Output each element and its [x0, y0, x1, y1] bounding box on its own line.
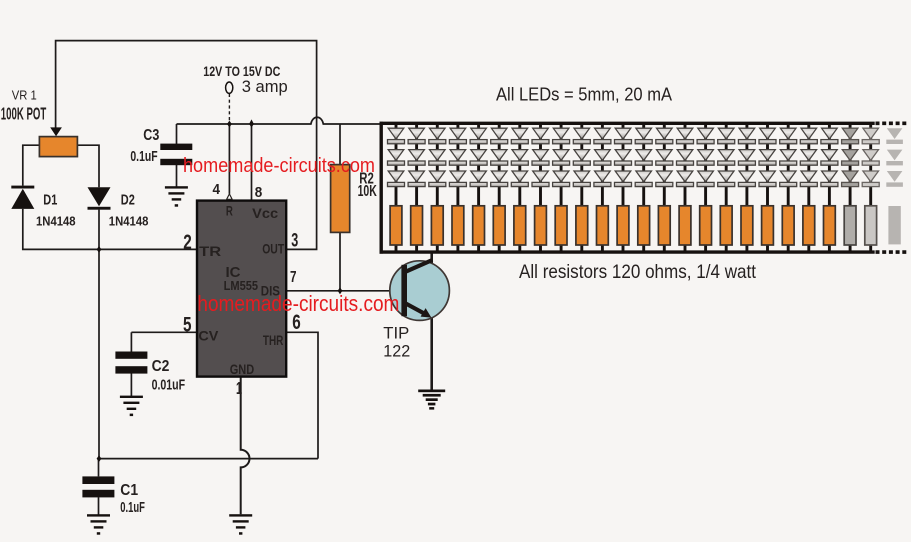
- wire LED column 16: [704, 123, 707, 252]
- wire OUT pin3 to pot wiper (top loop): [56, 41, 317, 250]
- LED column 13 row 1: [635, 128, 652, 144]
- LED column 12 row 1: [615, 128, 632, 144]
- LED column 11 row 3: [594, 171, 611, 187]
- LED column 20 row 1: [780, 128, 797, 144]
- LED column 4 row 2: [449, 150, 466, 166]
- LED column 1 row 1: [388, 128, 405, 144]
- wire LED column 24: [869, 123, 872, 252]
- LED column 4 row 3: [449, 171, 466, 187]
- wire LED column 1: [395, 123, 398, 252]
- svg-text:TR: TR: [199, 243, 221, 259]
- svg-text:2: 2: [183, 231, 192, 254]
- transistor Q1 emitter stroke: [405, 303, 426, 314]
- resistor column 21 (120 ohm): [803, 206, 815, 245]
- wire C3 bottom stem to ground: [176, 165, 178, 189]
- wire C2 bottom stem to ground: [130, 374, 132, 397]
- LED column 10 row 3: [573, 171, 590, 187]
- diode D1 body: [11, 189, 34, 209]
- svg-text:OUT: OUT: [262, 241, 285, 256]
- LED column 21 row 1: [800, 128, 817, 144]
- wire D1 cathode down / TR pin2: [23, 209, 197, 250]
- wire LED column 8: [539, 123, 542, 252]
- wire LED column 15: [684, 123, 687, 252]
- LED column 22 row 1: [821, 128, 838, 144]
- LED column 6 row 1: [491, 128, 508, 144]
- junction DIS/R2 node: [338, 287, 343, 294]
- wire LED column 17: [725, 123, 728, 252]
- LED column 15 row 2: [677, 150, 694, 166]
- LED column 13 row 3: [635, 171, 652, 187]
- LED column 23 row 2: [842, 150, 859, 166]
- svg-text:VR 1: VR 1: [12, 88, 37, 102]
- LED column 14 row 2: [656, 150, 673, 166]
- diode D2 body: [88, 187, 111, 206]
- wire LED column 2: [415, 123, 418, 252]
- LED column 3 row 1: [429, 128, 446, 144]
- wire C2 top stem: [130, 332, 132, 351]
- wire bottom rail: [99, 458, 318, 460]
- resistor column 12 (120 ohm): [617, 206, 629, 245]
- resistor column 6 (120 ohm): [493, 206, 505, 245]
- svg-text:R: R: [226, 202, 233, 218]
- LED column 8 row 2: [532, 150, 549, 166]
- ground below IC pin1: [229, 514, 252, 535]
- LED bank frame bottom border: [380, 250, 875, 253]
- resistor column 18 (120 ohm): [741, 206, 753, 245]
- wire R2 top lead: [339, 124, 341, 165]
- LED column 14 row 3: [656, 171, 673, 187]
- wire THR pin6 down: [286, 332, 318, 458]
- transistor Q1 base bar: [401, 265, 407, 316]
- LED column 5 row 1: [470, 128, 487, 144]
- svg-text:homemade-circuits.com: homemade-circuits.com: [183, 154, 375, 177]
- junction supply/pin8 node: [249, 119, 254, 127]
- wire LED column 20: [787, 123, 790, 252]
- diode D2 cathode bar: [88, 207, 111, 210]
- svg-text:10K: 10K: [358, 183, 378, 200]
- svg-text:C1: C1: [120, 482, 138, 499]
- junction TR node: [97, 246, 102, 253]
- LED column 17 row 3: [718, 171, 735, 187]
- LED ghost continuation column: [886, 128, 903, 244]
- wire LED column 6: [498, 123, 501, 252]
- resistor column 11 (120 ohm): [597, 206, 609, 245]
- wire supply terminal dashed lead: [228, 94, 230, 123]
- LED column 6 row 3: [491, 171, 508, 187]
- LED column 24 row 3: [862, 171, 879, 187]
- LED column 22 row 2: [821, 150, 838, 166]
- LED column 3 row 3: [429, 171, 446, 187]
- wire LED column 18: [745, 123, 748, 252]
- svg-text:3 amp: 3 amp: [242, 77, 288, 96]
- LED column 9 row 3: [553, 171, 570, 187]
- svg-text:5: 5: [183, 313, 192, 336]
- LED column 19 row 2: [759, 150, 776, 166]
- LED column 7 row 3: [511, 171, 528, 187]
- wire LED bank to transistor collector: [430, 252, 433, 263]
- LED column 10 row 2: [573, 150, 590, 166]
- svg-text:1N4148: 1N4148: [109, 215, 149, 229]
- svg-text:TIP: TIP: [383, 323, 409, 342]
- diode D1 cathode bar: [11, 186, 34, 189]
- wire LED column 3: [436, 123, 439, 252]
- LED column 24 row 1: [862, 128, 879, 144]
- LED column 24 row 2: [862, 150, 879, 166]
- capacitor C1 bottom plate: [82, 490, 114, 498]
- LED column 11 row 1: [594, 128, 611, 144]
- LED column 21 row 3: [800, 171, 817, 187]
- LED column 9 row 2: [553, 150, 570, 166]
- wire transistor emitter to ground: [430, 316, 433, 390]
- svg-text:0.01uF: 0.01uF: [152, 377, 186, 393]
- ground below C3: [165, 186, 188, 207]
- LED column 23 row 1: [842, 128, 859, 144]
- wire LED column 14: [663, 123, 666, 252]
- wire C1 top stem: [98, 459, 100, 477]
- wire LED column 9: [560, 123, 563, 252]
- wire C3 top stem: [176, 124, 178, 144]
- LED column 19 row 1: [759, 128, 776, 144]
- pin 4 open arrowhead: [227, 194, 233, 200]
- LED column 21 row 2: [800, 150, 817, 166]
- capacitor C3 bottom plate: [160, 159, 192, 165]
- LED column 14 row 1: [656, 128, 673, 144]
- LED column 20 row 3: [780, 171, 797, 187]
- resistor column 20 (120 ohm): [782, 206, 794, 245]
- wire C1 bottom stem to ground: [98, 497, 100, 515]
- LED column 12 row 2: [615, 150, 632, 166]
- LED column 1 row 2: [388, 150, 405, 166]
- wire CV pin5: [131, 331, 197, 333]
- resistor column 8 (120 ohm): [535, 206, 547, 245]
- resistor column 5 (120 ohm): [473, 206, 485, 245]
- capacitor C3 top plate: [160, 144, 192, 150]
- LED column 16 row 1: [697, 128, 714, 144]
- LED column 23 row 3: [842, 171, 859, 187]
- LED column 2 row 2: [408, 150, 425, 166]
- LED column 22 row 3: [821, 171, 838, 187]
- LED column 5 row 2: [470, 150, 487, 166]
- wire pin 8 Vcc lead: [251, 124, 253, 201]
- wire D2 cathode long vertical to C1: [98, 210, 100, 459]
- transistor Q1 emitter arrowhead: [421, 308, 432, 318]
- junction supply/pin4 node: [227, 121, 232, 128]
- LED column 1 row 3: [388, 171, 405, 187]
- svg-text:THR: THR: [263, 332, 284, 348]
- svg-text:0.1uF: 0.1uF: [120, 500, 145, 516]
- LED column 5 row 3: [470, 171, 487, 187]
- svg-text:1N4148: 1N4148: [36, 215, 76, 229]
- svg-text:3: 3: [291, 231, 298, 252]
- svg-text:4: 4: [213, 181, 221, 198]
- LED column 12 row 3: [615, 171, 632, 187]
- wire LED column 23: [849, 123, 852, 252]
- LED column 18 row 3: [738, 171, 755, 187]
- resistor column 16 (120 ohm): [700, 206, 712, 245]
- wire LED column 5: [477, 123, 480, 252]
- svg-text:C2: C2: [152, 358, 170, 375]
- wire LED column 21: [807, 123, 810, 252]
- svg-text:0.1uF: 0.1uF: [130, 149, 157, 165]
- capacitor C2 top plate: [115, 352, 147, 359]
- svg-text:homemade-circuits.com: homemade-circuits.com: [197, 291, 399, 316]
- svg-text:CV: CV: [198, 327, 219, 343]
- LED column 7 row 2: [511, 150, 528, 166]
- resistor column 24 (120 ohm): [865, 206, 877, 245]
- wire Vcc supply rail with hop over OUT line: [177, 117, 380, 124]
- ground below C1: [87, 514, 110, 535]
- LED column 8 row 1: [532, 128, 549, 144]
- LED column 17 row 2: [718, 150, 735, 166]
- resistor column 9 (120 ohm): [555, 206, 567, 245]
- LED column 4 row 1: [449, 128, 466, 144]
- svg-text:Vcc: Vcc: [252, 205, 278, 221]
- LED column 11 row 2: [594, 150, 611, 166]
- wire LED column 4: [456, 123, 459, 252]
- wire LED column 22: [828, 123, 831, 252]
- resistor column 4 (120 ohm): [452, 206, 464, 245]
- resistor column 1 (120 ohm): [390, 206, 402, 245]
- resistor column 19 (120 ohm): [762, 206, 774, 245]
- LED bank frame left border: [380, 122, 383, 254]
- LED column 9 row 1: [553, 128, 570, 144]
- resistor column 15 (120 ohm): [679, 206, 691, 245]
- wire DIS pin7 to transistor base: [286, 290, 401, 292]
- LED column 19 row 3: [759, 171, 776, 187]
- capacitor C2 bottom plate: [115, 366, 147, 373]
- LED column 15 row 1: [677, 128, 694, 144]
- svg-text:All LEDs = 5mm, 20 mA: All LEDs = 5mm, 20 mA: [496, 85, 672, 105]
- junction bottom rail node: [97, 455, 102, 462]
- wire pot right terminal: [77, 145, 99, 187]
- capacitor C1 top plate: [82, 476, 114, 484]
- resistor column 13 (120 ohm): [638, 206, 650, 245]
- resistor column 14 (120 ohm): [658, 206, 670, 245]
- LED column 6 row 2: [491, 150, 508, 166]
- svg-text:C3: C3: [143, 127, 159, 144]
- svg-text:D1: D1: [43, 192, 57, 209]
- wire GND pin1 with hop over bottom rail: [241, 377, 250, 515]
- svg-text:122: 122: [383, 341, 410, 360]
- resistor column 17 (120 ohm): [720, 206, 732, 245]
- LED column 10 row 1: [573, 128, 590, 144]
- svg-text:All resistors 120 ohms, 1/4 wa: All resistors 120 ohms, 1/4 watt: [519, 261, 757, 283]
- potentiometer VR1 body: [39, 137, 77, 157]
- wire LED column 10: [580, 123, 583, 252]
- LED column 8 row 3: [532, 171, 549, 187]
- op IC U1 LM555 body: [197, 201, 286, 377]
- LED column 2 row 1: [408, 128, 425, 144]
- potentiometer VR1 wiper arrow: [50, 127, 62, 136]
- LED column 16 row 3: [697, 171, 714, 187]
- resistor R2 body: [331, 165, 350, 233]
- resistor column 3 (120 ohm): [431, 206, 443, 245]
- resistor column 7 (120 ohm): [514, 206, 526, 245]
- wire LED column 19: [766, 123, 769, 252]
- wire LED column 12: [622, 123, 625, 252]
- svg-text:D2: D2: [121, 192, 135, 209]
- resistor column 10 (120 ohm): [576, 206, 588, 245]
- svg-text:1: 1: [236, 378, 242, 398]
- LED column 18 row 2: [738, 150, 755, 166]
- LED column 15 row 3: [677, 171, 694, 187]
- resistor column 2 (120 ohm): [411, 206, 423, 245]
- svg-text:7: 7: [290, 269, 297, 286]
- wire R2 bottom lead: [339, 232, 341, 290]
- wire LED column 11: [601, 123, 604, 252]
- ground below C2: [120, 396, 143, 417]
- resistor column 22 (120 ohm): [824, 206, 836, 245]
- LED bank top border dashed continuation: [876, 122, 908, 126]
- wire LED column 13: [642, 123, 645, 252]
- LED column 2 row 3: [408, 171, 425, 187]
- LED column 17 row 1: [718, 128, 735, 144]
- wire pin 4 reset lead: [228, 124, 230, 194]
- LED column 7 row 1: [511, 128, 528, 144]
- LED bank bottom border dashed continuation: [876, 250, 908, 254]
- transistor Q1 collector stroke: [405, 260, 433, 272]
- svg-text:8: 8: [255, 184, 262, 201]
- ground below emitter: [418, 390, 445, 410]
- resistor column 23 (120 ohm): [844, 206, 856, 245]
- LED column 3 row 2: [429, 150, 446, 166]
- LED bank frame top border: [380, 122, 875, 125]
- supply input terminal circle: [226, 82, 233, 93]
- svg-text:GND: GND: [230, 361, 255, 377]
- transistor Q1 TIP122 circle: [390, 261, 450, 321]
- wire pot left terminal: [23, 145, 40, 185]
- LED column 20 row 2: [780, 150, 797, 166]
- svg-text:100K POT: 100K POT: [1, 104, 47, 124]
- LED column 13 row 2: [635, 150, 652, 166]
- LED column 18 row 1: [738, 128, 755, 144]
- wire LED column 7: [518, 123, 521, 252]
- LED column 16 row 2: [697, 150, 714, 166]
